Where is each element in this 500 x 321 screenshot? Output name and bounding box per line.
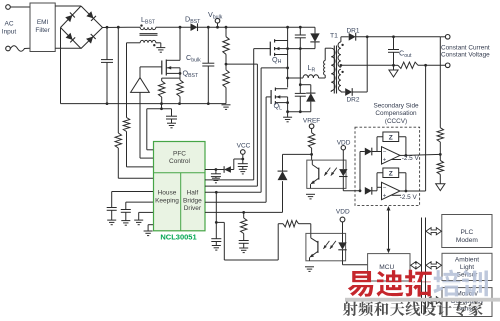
svg-text:T1: T1 [330, 33, 338, 40]
svg-text:+: + [383, 158, 387, 164]
svg-text:Light: Light [460, 264, 474, 271]
svg-text:Compensation: Compensation [375, 110, 417, 117]
svg-text:Z: Z [389, 134, 393, 141]
svg-text:Keeping: Keeping [155, 197, 179, 204]
svg-text:Ambient: Ambient [455, 256, 479, 263]
svg-text:(CCCV): (CCCV) [385, 118, 407, 125]
svg-text:VDD: VDD [336, 209, 350, 216]
svg-text:Constant Voltage: Constant Voltage [441, 52, 490, 59]
svg-text:EMI: EMI [37, 19, 49, 26]
svg-text:PFC: PFC [173, 150, 186, 157]
svg-text:Driver: Driver [184, 205, 202, 212]
svg-text:+: + [383, 194, 387, 200]
svg-text:Constant Current: Constant Current [441, 44, 490, 51]
svg-text:VCC: VCC [237, 142, 251, 149]
svg-text:House: House [158, 190, 177, 197]
svg-text:Filter: Filter [35, 27, 50, 34]
svg-text:DR2: DR2 [346, 97, 359, 104]
svg-text:VDD: VDD [337, 140, 351, 147]
svg-text:Modem: Modem [456, 237, 478, 244]
svg-text:Input: Input [2, 29, 17, 36]
svg-text:-2.5 V: -2.5 V [400, 194, 418, 201]
svg-text:DR1: DR1 [346, 28, 359, 35]
svg-text:AC: AC [4, 21, 13, 28]
svg-text:PLC: PLC [460, 229, 473, 236]
svg-text:Half: Half [187, 190, 199, 197]
svg-text:NCL30051: NCL30051 [160, 233, 196, 242]
svg-text:Secondary Side: Secondary Side [373, 103, 419, 110]
svg-text:Z: Z [389, 170, 393, 177]
svg-text:VREF: VREF [303, 117, 320, 124]
svg-text:−: − [383, 185, 387, 191]
svg-text:Control: Control [169, 158, 191, 165]
svg-text:−: − [383, 150, 387, 156]
svg-text:-2.5 V: -2.5 V [402, 155, 420, 162]
svg-text:Bridge: Bridge [183, 197, 202, 204]
